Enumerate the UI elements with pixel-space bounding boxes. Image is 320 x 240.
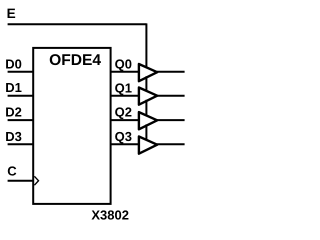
svg-text:X3802: X3802 <box>91 207 129 222</box>
wire D1 <box>8 95 34 97</box>
svg-text:D3: D3 <box>5 129 22 144</box>
wire out 1 <box>157 95 185 97</box>
flip-flop box body OFDE4 <box>33 48 110 204</box>
svg-text:Q0: Q0 <box>115 56 132 71</box>
wire enable link 0-1 <box>145 76 147 91</box>
wire D2 <box>8 119 34 121</box>
wire out 2 <box>157 119 185 121</box>
wire C <box>8 180 33 182</box>
tristate buffer 2 <box>139 112 157 129</box>
wire out 0 <box>157 71 185 73</box>
wire E vertical rail <box>145 23 147 67</box>
svg-text:D0: D0 <box>5 56 22 71</box>
wire E horizontal <box>8 23 147 25</box>
svg-text:Q2: Q2 <box>115 105 132 120</box>
wire D3 <box>8 143 34 145</box>
svg-text:E: E <box>7 6 16 21</box>
wire Q0 <box>111 71 140 73</box>
tristate buffer 3 <box>139 137 157 154</box>
tristate buffer 0 <box>139 64 157 81</box>
tristate buffer 1 <box>139 88 157 105</box>
svg-text:OFDE4: OFDE4 <box>49 52 101 69</box>
wire D0 <box>8 71 34 73</box>
wire enable link 2-3 <box>145 124 147 140</box>
svg-text:D1: D1 <box>5 80 22 95</box>
clock wedge <box>34 176 38 185</box>
wire Q1 <box>111 95 140 97</box>
svg-text:C: C <box>7 164 17 179</box>
svg-text:Q1: Q1 <box>115 80 132 95</box>
wire Q3 <box>111 143 140 145</box>
wire out 3 <box>157 143 185 145</box>
svg-text:Q3: Q3 <box>115 129 132 144</box>
svg-text:D2: D2 <box>5 104 22 119</box>
wire enable link 1-2 <box>145 100 147 116</box>
wire Q2 <box>111 119 140 121</box>
